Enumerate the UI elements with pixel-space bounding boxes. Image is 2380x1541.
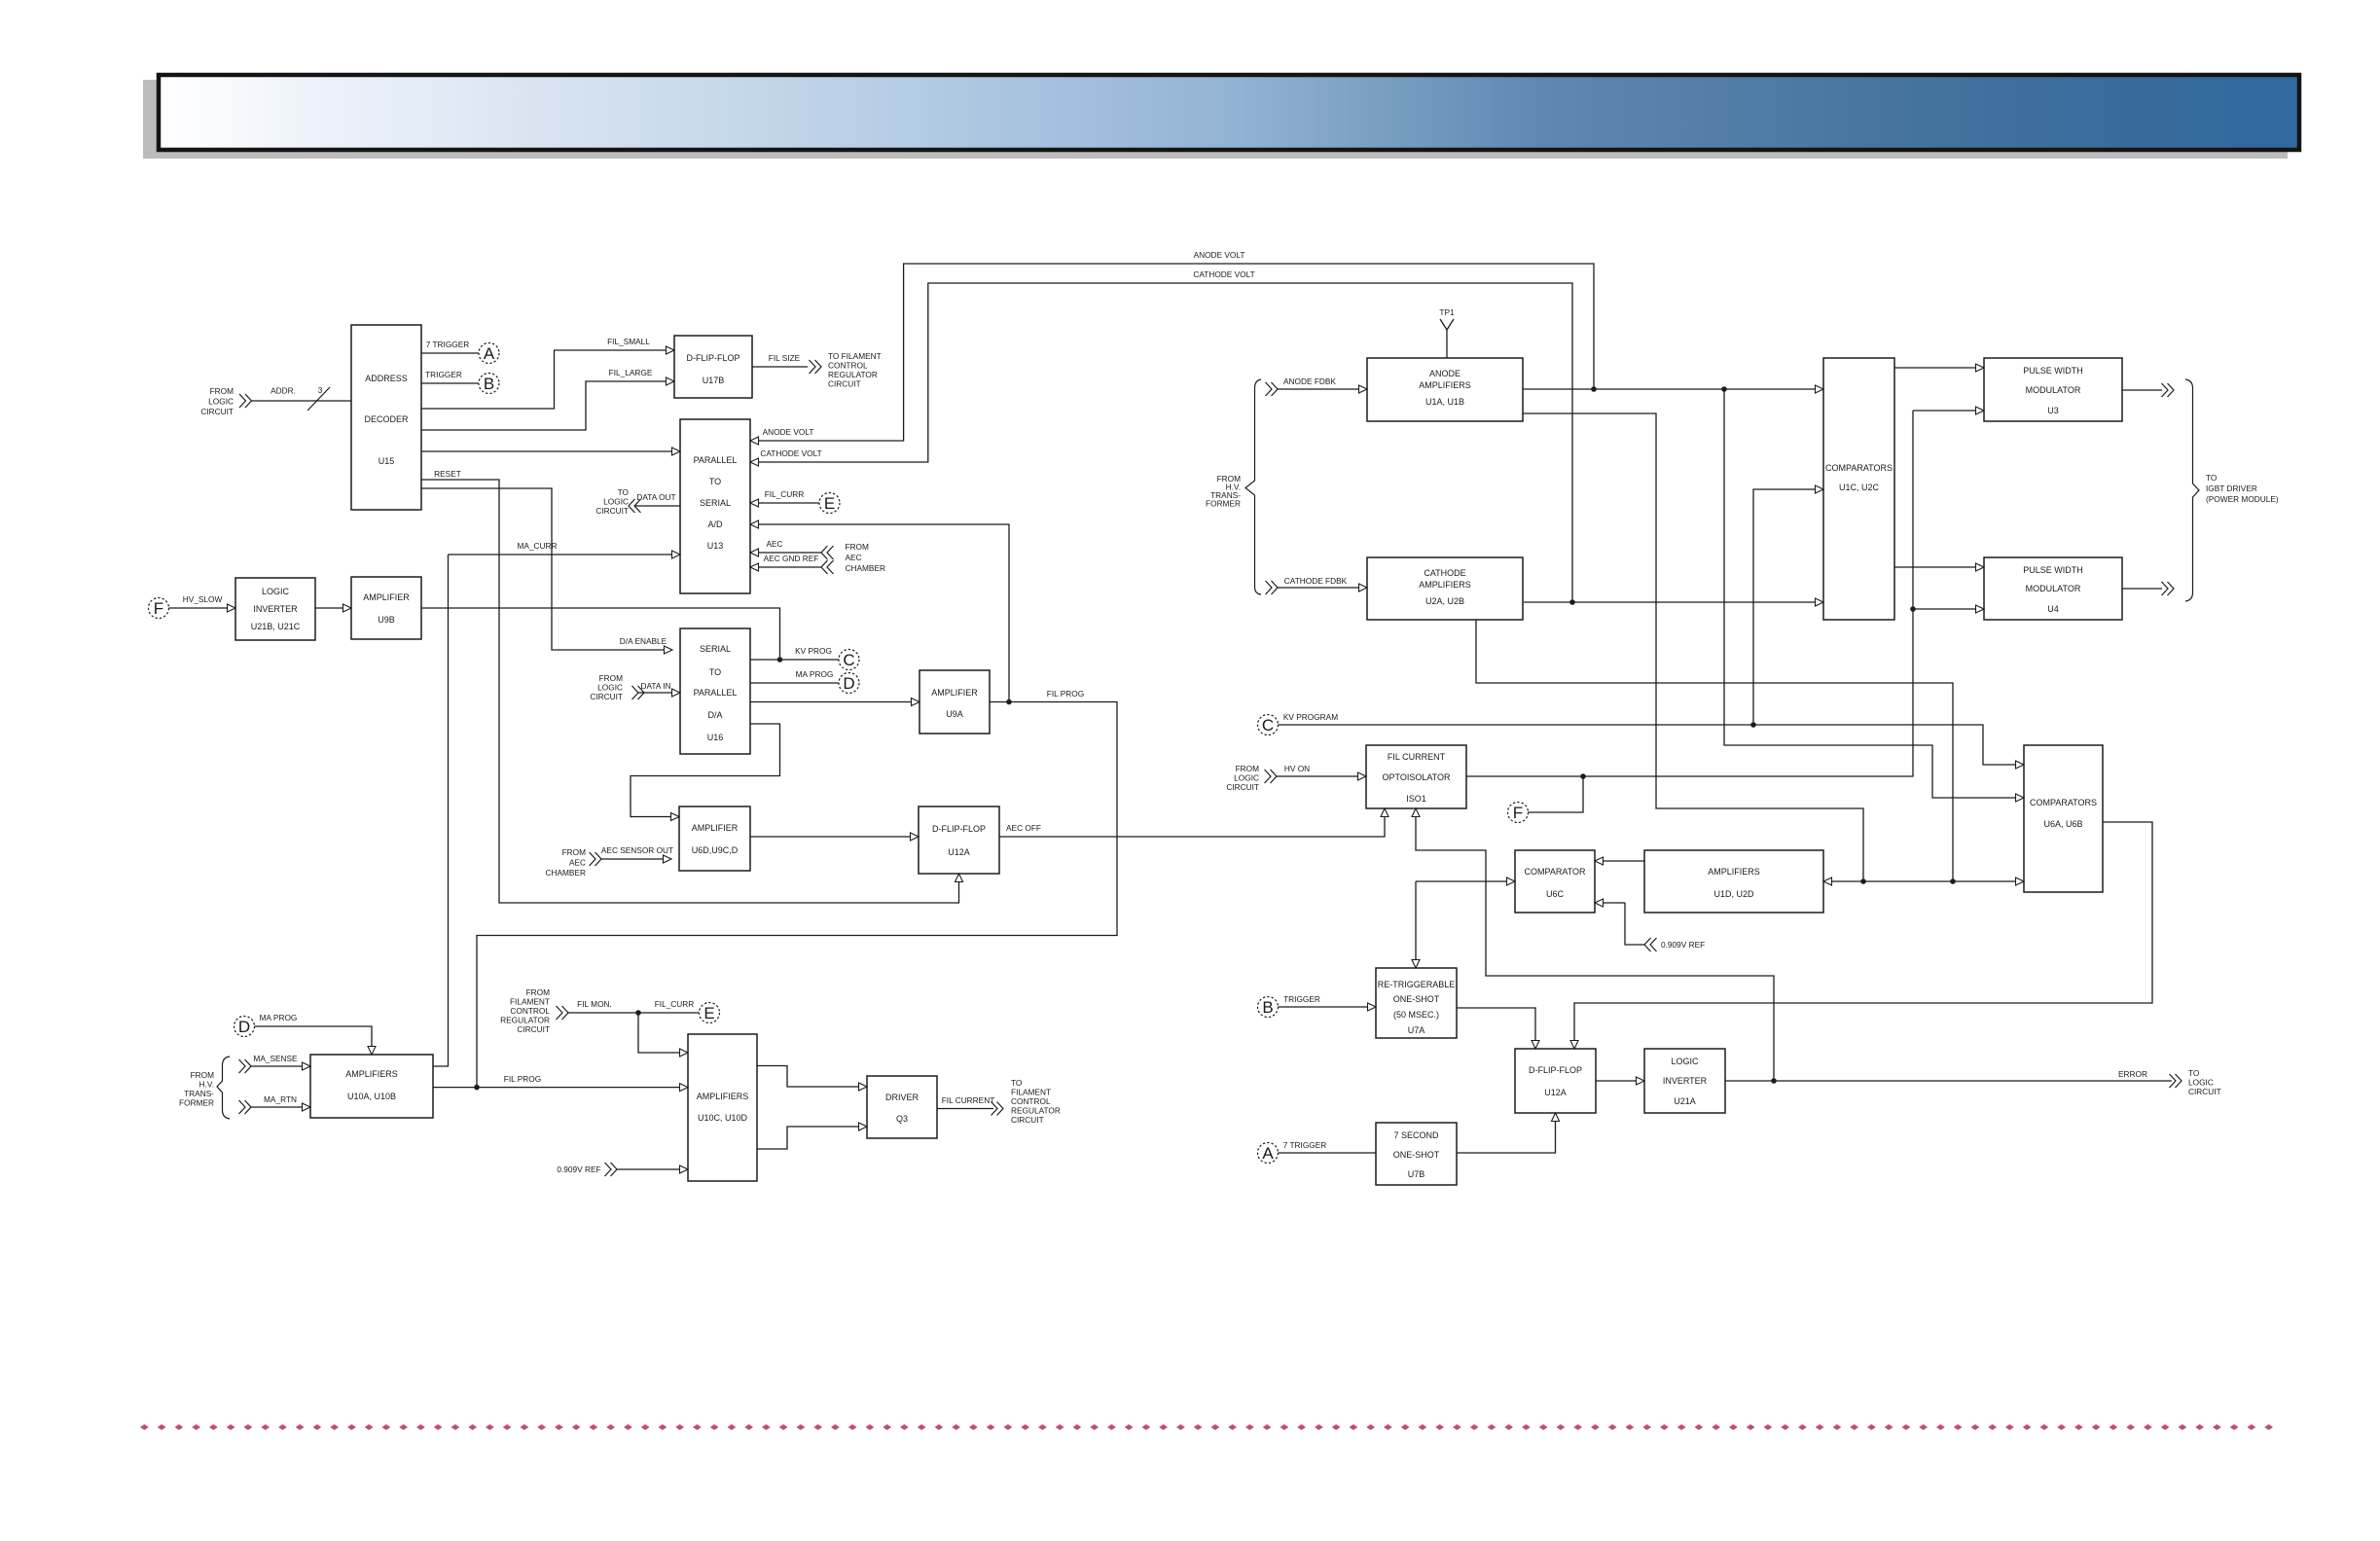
svg-text:FIL PROG: FIL PROG xyxy=(504,1074,541,1084)
svg-text:B: B xyxy=(1262,998,1273,1017)
svg-text:7 TRIGGER: 7 TRIGGER xyxy=(1283,1140,1327,1150)
svg-text:AMPLIFIER: AMPLIFIER xyxy=(363,592,410,602)
svg-text:A/D: A/D xyxy=(707,520,723,529)
svg-text:AEC GND REF: AEC GND REF xyxy=(764,554,819,563)
svg-text:D: D xyxy=(238,1018,250,1036)
svg-text:CIRCUIT: CIRCUIT xyxy=(590,692,623,701)
svg-text:D-FLIP-FLOP: D-FLIP-FLOP xyxy=(686,353,739,363)
svg-text:ERROR: ERROR xyxy=(2118,1069,2147,1079)
svg-text:LOGIC: LOGIC xyxy=(2188,1078,2214,1088)
svg-text:DRIVER: DRIVER xyxy=(885,1093,920,1102)
svg-text:U12A: U12A xyxy=(1544,1088,1567,1097)
svg-text:DATA OUT: DATA OUT xyxy=(636,492,675,502)
svg-text:MA PROG: MA PROG xyxy=(796,669,834,679)
svg-text:ONE-SHOT: ONE-SHOT xyxy=(1393,994,1440,1004)
svg-text:U1A, U1B: U1A, U1B xyxy=(1425,397,1464,407)
svg-text:FIL_CURR: FIL_CURR xyxy=(765,489,805,499)
svg-text:D-FLIP-FLOP: D-FLIP-FLOP xyxy=(1529,1065,1582,1075)
svg-text:HV_SLOW: HV_SLOW xyxy=(183,594,223,604)
svg-text:Q3: Q3 xyxy=(896,1114,908,1124)
svg-text:REGULATOR: REGULATOR xyxy=(1011,1106,1061,1116)
svg-text:CATHODE VOLT: CATHODE VOLT xyxy=(760,448,821,458)
svg-text:MA_SENSE: MA_SENSE xyxy=(253,1054,298,1063)
svg-text:ANODE: ANODE xyxy=(1429,369,1460,378)
svg-text:CIRCUIT: CIRCUIT xyxy=(517,1024,550,1034)
svg-text:SERIAL: SERIAL xyxy=(700,644,731,654)
svg-text:TRIGGER: TRIGGER xyxy=(425,370,462,379)
svg-text:LOGIC: LOGIC xyxy=(1671,1057,1699,1066)
svg-text:DECODER: DECODER xyxy=(364,414,409,424)
svg-text:AMPLIFIERS: AMPLIFIERS xyxy=(1708,867,1760,877)
svg-text:U17B: U17B xyxy=(703,376,725,385)
svg-text:ISO1: ISO1 xyxy=(1406,794,1426,804)
svg-text:FROM: FROM xyxy=(1236,764,1260,773)
svg-text:FIL CURRENT: FIL CURRENT xyxy=(1388,752,1446,762)
svg-text:LOGIC: LOGIC xyxy=(208,397,234,407)
svg-text:U4: U4 xyxy=(2047,604,2059,614)
svg-text:ONE-SHOT: ONE-SHOT xyxy=(1393,1150,1440,1160)
svg-text:U6C: U6C xyxy=(1546,889,1565,899)
svg-text:AMPLIFIERS: AMPLIFIERS xyxy=(1419,580,1471,590)
svg-text:LOGIC: LOGIC xyxy=(1234,773,1259,783)
svg-text:FIL PROG: FIL PROG xyxy=(1047,689,1084,699)
svg-text:U10A, U10B: U10A, U10B xyxy=(347,1092,396,1101)
svg-text:TP1: TP1 xyxy=(1439,307,1455,317)
svg-text:U21B, U21C: U21B, U21C xyxy=(251,622,301,631)
svg-text:FIL CURRENT: FIL CURRENT xyxy=(942,1095,995,1105)
svg-text:HV ON: HV ON xyxy=(1284,764,1310,773)
svg-text:CIRCUIT: CIRCUIT xyxy=(200,407,234,416)
svg-text:COMPARATORS: COMPARATORS xyxy=(2030,798,2097,807)
svg-text:FROM: FROM xyxy=(210,386,234,396)
svg-text:TO FILAMENT: TO FILAMENT xyxy=(828,351,882,361)
svg-text:PARALLEL: PARALLEL xyxy=(694,688,738,698)
svg-text:CONTROL: CONTROL xyxy=(828,361,868,371)
svg-text:U12A: U12A xyxy=(948,847,970,857)
svg-text:7 SECOND: 7 SECOND xyxy=(1393,1130,1439,1140)
svg-text:REGULATOR: REGULATOR xyxy=(828,370,878,379)
svg-text:TO: TO xyxy=(2188,1068,2200,1078)
svg-text:U1C, U2C: U1C, U2C xyxy=(1839,483,1880,492)
svg-text:0.909V REF: 0.909V REF xyxy=(1661,940,1705,950)
svg-text:RESET: RESET xyxy=(434,469,461,479)
svg-text:C: C xyxy=(843,651,854,669)
svg-text:ADDRESS: ADDRESS xyxy=(365,374,408,383)
svg-text:U1D, U2D: U1D, U2D xyxy=(1713,889,1754,899)
svg-text:CIRCUIT: CIRCUIT xyxy=(828,379,861,389)
svg-text:0.909V REF: 0.909V REF xyxy=(557,1165,600,1174)
svg-text:CATHODE: CATHODE xyxy=(1424,568,1465,578)
svg-text:FROM: FROM xyxy=(562,847,587,857)
svg-text:CATHODE VOLT: CATHODE VOLT xyxy=(1193,269,1254,279)
svg-text:PARALLEL: PARALLEL xyxy=(694,455,738,465)
svg-text:MA PROG: MA PROG xyxy=(260,1013,298,1022)
svg-text:H.V.: H.V. xyxy=(199,1080,214,1090)
svg-text:A: A xyxy=(1262,1144,1274,1163)
svg-text:U7A: U7A xyxy=(1408,1025,1425,1035)
svg-text:CIRCUIT: CIRCUIT xyxy=(1226,782,1259,792)
svg-text:TO: TO xyxy=(709,667,721,677)
svg-text:AMPLIFIER: AMPLIFIER xyxy=(692,823,739,833)
svg-text:COMPARATOR: COMPARATOR xyxy=(1524,867,1586,877)
svg-text:MA_RTN: MA_RTN xyxy=(264,1094,297,1104)
svg-text:U13: U13 xyxy=(707,541,724,551)
svg-text:U6A, U6B: U6A, U6B xyxy=(2043,819,2082,829)
svg-text:U6D,U9C,D: U6D,U9C,D xyxy=(692,845,739,855)
svg-text:TO: TO xyxy=(2206,473,2218,483)
svg-text:3: 3 xyxy=(318,385,323,395)
svg-text:ADDR.: ADDR. xyxy=(270,386,296,396)
svg-text:AEC: AEC xyxy=(569,858,586,868)
svg-text:(50 MSEC.): (50 MSEC.) xyxy=(1393,1010,1439,1020)
svg-text:MODULATOR: MODULATOR xyxy=(2026,385,2081,395)
svg-text:FROM: FROM xyxy=(191,1070,215,1080)
svg-text:REGULATOR: REGULATOR xyxy=(500,1016,550,1025)
svg-text:AMPLIFIER: AMPLIFIER xyxy=(931,688,978,698)
svg-text:FROM: FROM xyxy=(526,987,551,997)
svg-text:F: F xyxy=(1513,804,1523,822)
svg-text:FIL_CURR: FIL_CURR xyxy=(655,999,695,1009)
svg-text:U3: U3 xyxy=(2047,406,2059,415)
svg-text:PULSE WIDTH: PULSE WIDTH xyxy=(2023,366,2083,376)
svg-text:IGBT DRIVER: IGBT DRIVER xyxy=(2206,484,2257,493)
svg-text:TO: TO xyxy=(1011,1078,1023,1088)
svg-text:FORMER: FORMER xyxy=(1206,499,1241,509)
svg-text:CHAMBER: CHAMBER xyxy=(546,868,587,878)
svg-text:INVERTER: INVERTER xyxy=(1663,1076,1708,1086)
svg-text:C: C xyxy=(1262,716,1274,735)
svg-text:ANODE VOLT: ANODE VOLT xyxy=(763,427,814,437)
svg-text:MA_CURR: MA_CURR xyxy=(517,541,557,551)
svg-text:RE-TRIGGERABLE: RE-TRIGGERABLE xyxy=(1378,980,1456,989)
svg-text:PULSE WIDTH: PULSE WIDTH xyxy=(2023,565,2083,575)
svg-text:AMPLIFIERS: AMPLIFIERS xyxy=(1419,380,1471,390)
svg-text:U9A: U9A xyxy=(946,709,963,719)
svg-text:U10C, U10D: U10C, U10D xyxy=(698,1113,748,1123)
svg-text:E: E xyxy=(703,1004,714,1022)
svg-text:ANODE FDBK: ANODE FDBK xyxy=(1283,376,1336,386)
svg-text:U7B: U7B xyxy=(1408,1169,1425,1179)
svg-text:CATHODE FDBK: CATHODE FDBK xyxy=(1284,576,1348,586)
svg-text:7 TRIGGER: 7 TRIGGER xyxy=(426,340,470,349)
svg-text:FIL MON.: FIL MON. xyxy=(577,999,612,1009)
svg-text:FIL_LARGE: FIL_LARGE xyxy=(609,368,653,377)
svg-text:FILAMENT: FILAMENT xyxy=(1011,1088,1051,1097)
svg-text:TO: TO xyxy=(709,477,721,486)
svg-text:KV PROGRAM: KV PROGRAM xyxy=(1283,712,1338,722)
svg-text:CHAMBER: CHAMBER xyxy=(846,563,886,573)
svg-text:COMPARATORS: COMPARATORS xyxy=(1825,463,1893,473)
svg-text:FROM: FROM xyxy=(846,542,870,552)
svg-text:U16: U16 xyxy=(707,733,724,742)
svg-text:ANODE VOLT: ANODE VOLT xyxy=(1194,250,1245,260)
svg-text:AMPLIFIERS: AMPLIFIERS xyxy=(697,1092,749,1101)
svg-text:D/A: D/A xyxy=(707,710,722,720)
svg-text:U9B: U9B xyxy=(378,615,395,625)
svg-text:F: F xyxy=(154,599,163,618)
svg-text:MODULATOR: MODULATOR xyxy=(2026,584,2081,593)
svg-text:D: D xyxy=(843,674,854,693)
svg-text:E: E xyxy=(824,494,835,513)
svg-text:AEC: AEC xyxy=(766,539,782,549)
svg-text:OPTOISOLATOR: OPTOISOLATOR xyxy=(1382,772,1451,782)
svg-text:DATA IN: DATA IN xyxy=(640,681,670,691)
svg-text:SERIAL: SERIAL xyxy=(700,498,731,508)
svg-text:U15: U15 xyxy=(379,456,395,466)
svg-text:FIL_SMALL: FIL_SMALL xyxy=(607,337,650,346)
svg-text:CIRCUIT: CIRCUIT xyxy=(2188,1087,2221,1096)
svg-text:INVERTER: INVERTER xyxy=(253,604,298,614)
svg-text:FIL SIZE: FIL SIZE xyxy=(769,353,801,363)
svg-text:FROM: FROM xyxy=(599,673,624,683)
svg-text:TO: TO xyxy=(618,487,630,497)
svg-text:(POWER MODULE): (POWER MODULE) xyxy=(2206,494,2279,504)
svg-text:FORMER: FORMER xyxy=(179,1098,214,1108)
svg-text:CONTROL: CONTROL xyxy=(510,1006,550,1016)
svg-text:CONTROL: CONTROL xyxy=(1011,1096,1051,1106)
svg-text:A: A xyxy=(484,344,495,363)
svg-text:U2A, U2B: U2A, U2B xyxy=(1425,596,1464,606)
svg-text:D/A ENABLE: D/A ENABLE xyxy=(620,636,667,646)
svg-text:LOGIC: LOGIC xyxy=(262,587,290,596)
svg-text:CIRCUIT: CIRCUIT xyxy=(1011,1115,1044,1125)
svg-text:U21A: U21A xyxy=(1674,1096,1696,1106)
svg-text:CIRCUIT: CIRCUIT xyxy=(595,506,629,516)
svg-text:AEC: AEC xyxy=(846,553,862,562)
svg-text:FILAMENT: FILAMENT xyxy=(510,997,550,1007)
svg-text:TRIGGER: TRIGGER xyxy=(1283,994,1320,1004)
svg-text:AEC OFF: AEC OFF xyxy=(1006,823,1041,833)
svg-text:TRANS-: TRANS- xyxy=(184,1089,214,1098)
svg-text:LOGIC: LOGIC xyxy=(597,683,623,693)
svg-text:LOGIC: LOGIC xyxy=(603,497,629,507)
svg-text:B: B xyxy=(484,375,494,393)
svg-text:AEC SENSOR OUT: AEC SENSOR OUT xyxy=(601,845,673,855)
svg-text:AMPLIFIERS: AMPLIFIERS xyxy=(345,1069,398,1079)
svg-text:KV PROG: KV PROG xyxy=(795,646,832,656)
svg-text:D-FLIP-FLOP: D-FLIP-FLOP xyxy=(932,824,986,834)
